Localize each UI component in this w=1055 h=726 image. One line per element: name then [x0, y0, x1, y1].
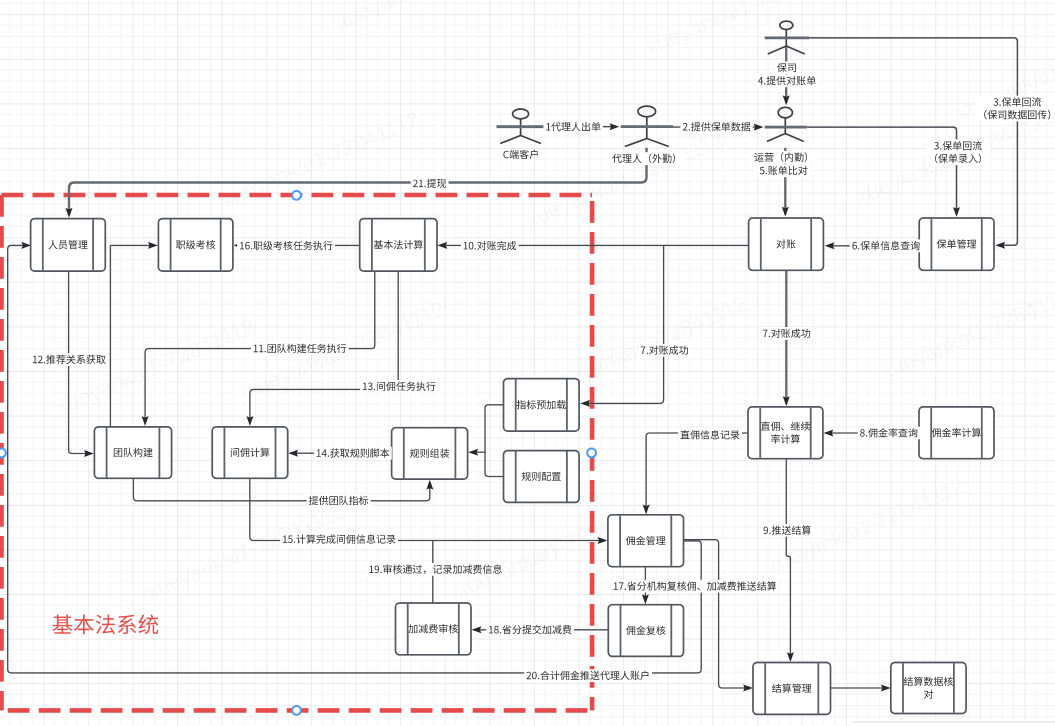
wire 20.合计佣金推送代理人账户 (佣金管理→人员管理)	[8, 242, 702, 673]
label 14.获取规则脚本	[314, 447, 392, 460]
process box 指标预加载	[504, 379, 580, 432]
label 3.保单回流（保司数据回传）	[975, 96, 1055, 122]
process box 佣金率计算	[919, 407, 994, 459]
wire bracket 指标预加载/规则配置→规则组装	[468, 405, 503, 477]
wire 4.提供对账单 (保司→运营)	[783, 46, 790, 105]
label 19.审核通过，记录加减费信息	[367, 563, 505, 576]
actor 保司	[765, 21, 810, 54]
label 代理人（外勤）	[610, 152, 684, 165]
process box 人员管理	[31, 219, 106, 272]
wire 2.提供保单数据 (代理人→运营)	[673, 124, 763, 131]
process box 直佣、继续率计算	[748, 407, 823, 459]
system boundary 基本法系统 (red dashed rect)	[2, 195, 593, 710]
process box 规则配置	[504, 451, 580, 503]
label 基本法系统 (red title)	[52, 614, 158, 634]
label 8.佣金率查询	[858, 427, 920, 440]
wire 6.保单信息查询 (保单管理→对账)	[825, 242, 920, 249]
blue selection handle left	[0, 449, 6, 458]
label 7.对账成功 right	[760, 327, 812, 340]
label 6.保单信息查询	[850, 239, 922, 252]
label C端客户	[503, 150, 537, 159]
label 13.间佣任务执行	[360, 380, 438, 393]
label 2.提供保单数据	[680, 121, 752, 134]
wire 佣金管理→结算管理	[684, 540, 753, 692]
wire 9.推送结算 (直佣计算→结算管理)	[786, 459, 794, 662]
process box 对账	[749, 218, 824, 270]
wire 结算管理→结算数据核对	[831, 685, 891, 692]
blue selection handle bottom	[292, 706, 301, 715]
label 11.团队构建任务执行	[251, 342, 349, 355]
process box 职级考核	[158, 219, 233, 272]
label 3.保单回流（保单录入）	[926, 140, 990, 166]
label 21.提现	[411, 177, 449, 190]
actor C端客户	[497, 109, 545, 144]
label 12.推荐关系获取	[30, 353, 108, 366]
wire 13.间佣任务执行 (基本法计算→间佣计算)	[246, 271, 398, 426]
label 9.推送结算	[761, 524, 813, 537]
process box 佣金管理	[608, 515, 684, 567]
wire 3.保单回流 保司数据回传 (保司→保单管理)	[809, 38, 1017, 249]
actor 运营（内勤）	[765, 107, 807, 141]
wire 12.推荐关系获取 (人员管理→团队构建)	[69, 271, 94, 457]
wire 21.提现 (代理人→人员管理)	[66, 148, 647, 218]
label 5.账单比对	[757, 164, 809, 177]
wire 1代理人出单 (C端客户→代理人)	[545, 123, 620, 130]
wire 8.佣金率查询 (佣金率计算→直佣计算)	[824, 430, 920, 437]
label 17.省分机构复核佣、加减费推送结算	[611, 580, 779, 593]
label 提供团队指标	[307, 494, 371, 507]
wire 19 (加减费审核→佣金管理 join)	[432, 541, 434, 604]
wire 10.对账完成 (对账→基本法计算)	[437, 242, 748, 249]
blue selection handle right	[587, 449, 596, 458]
canvas edge bottom-right	[852, 722, 1055, 726]
process box 间佣计算	[212, 427, 288, 478]
label 10.对账完成	[461, 239, 519, 252]
wire 人员管理→职级考核	[110, 242, 157, 249]
wire 17 (佣金管理→佣金复核)	[642, 567, 649, 605]
wire 18.省分提交加减费 (佣金复核→加减费审核)	[472, 626, 609, 633]
process box 结算管理	[753, 663, 831, 715]
process box 结算数据核对	[891, 663, 966, 714]
process box 规则组装	[392, 428, 468, 479]
label 1代理人出单	[543, 121, 603, 134]
watermark texts	[52, 0, 1055, 605]
label 15.计算完成间佣信息记录	[280, 533, 398, 546]
wire 提供团队指标 (团队构建→规则组装)	[133, 478, 433, 501]
label 直佣信息记录	[678, 429, 742, 442]
wire junction 人员管理→团队构建 (vertical)	[109, 245, 111, 427]
label 4.提供对账单	[756, 74, 818, 87]
label 保司	[775, 61, 799, 74]
wire 11.团队构建任务执行 (基本法计算→团队构建)	[142, 271, 375, 426]
wire 7.对账成功 (对账→直佣继续率计算)	[783, 270, 790, 406]
label 运营（内勤）	[752, 151, 816, 164]
process box 基本法计算	[360, 219, 437, 272]
process box 保单管理	[919, 218, 994, 270]
wire 7.对账成功 branch (→指标预加载)	[580, 245, 663, 407]
process box 加减费审核	[396, 603, 472, 655]
label 18.省分提交加减费	[486, 623, 574, 636]
label 7.对账成功 left	[638, 344, 690, 357]
wire 14.获取规则脚本 (规则组装→间佣计算)	[288, 450, 391, 457]
process box 佣金复核	[608, 605, 683, 657]
actor 代理人（外勤）	[621, 106, 674, 146]
process box 团队构建	[94, 427, 171, 478]
wire 16 (基本法计算→职级考核)	[234, 242, 360, 249]
blue selection handle top	[292, 191, 301, 200]
label 20.合计佣金推送代理人账户	[524, 669, 652, 682]
wire 直佣信息记录 (直佣计算→佣金管理)	[643, 433, 748, 514]
wire 5 运营→对账	[782, 148, 789, 217]
wire 15.计算完成间佣信息记录 (间佣计算→佣金管理)	[250, 478, 608, 544]
wire 3.保单回流 保单录入 (运营→保单管理)	[807, 127, 960, 217]
label 16.职级考核任务执行	[237, 239, 335, 252]
